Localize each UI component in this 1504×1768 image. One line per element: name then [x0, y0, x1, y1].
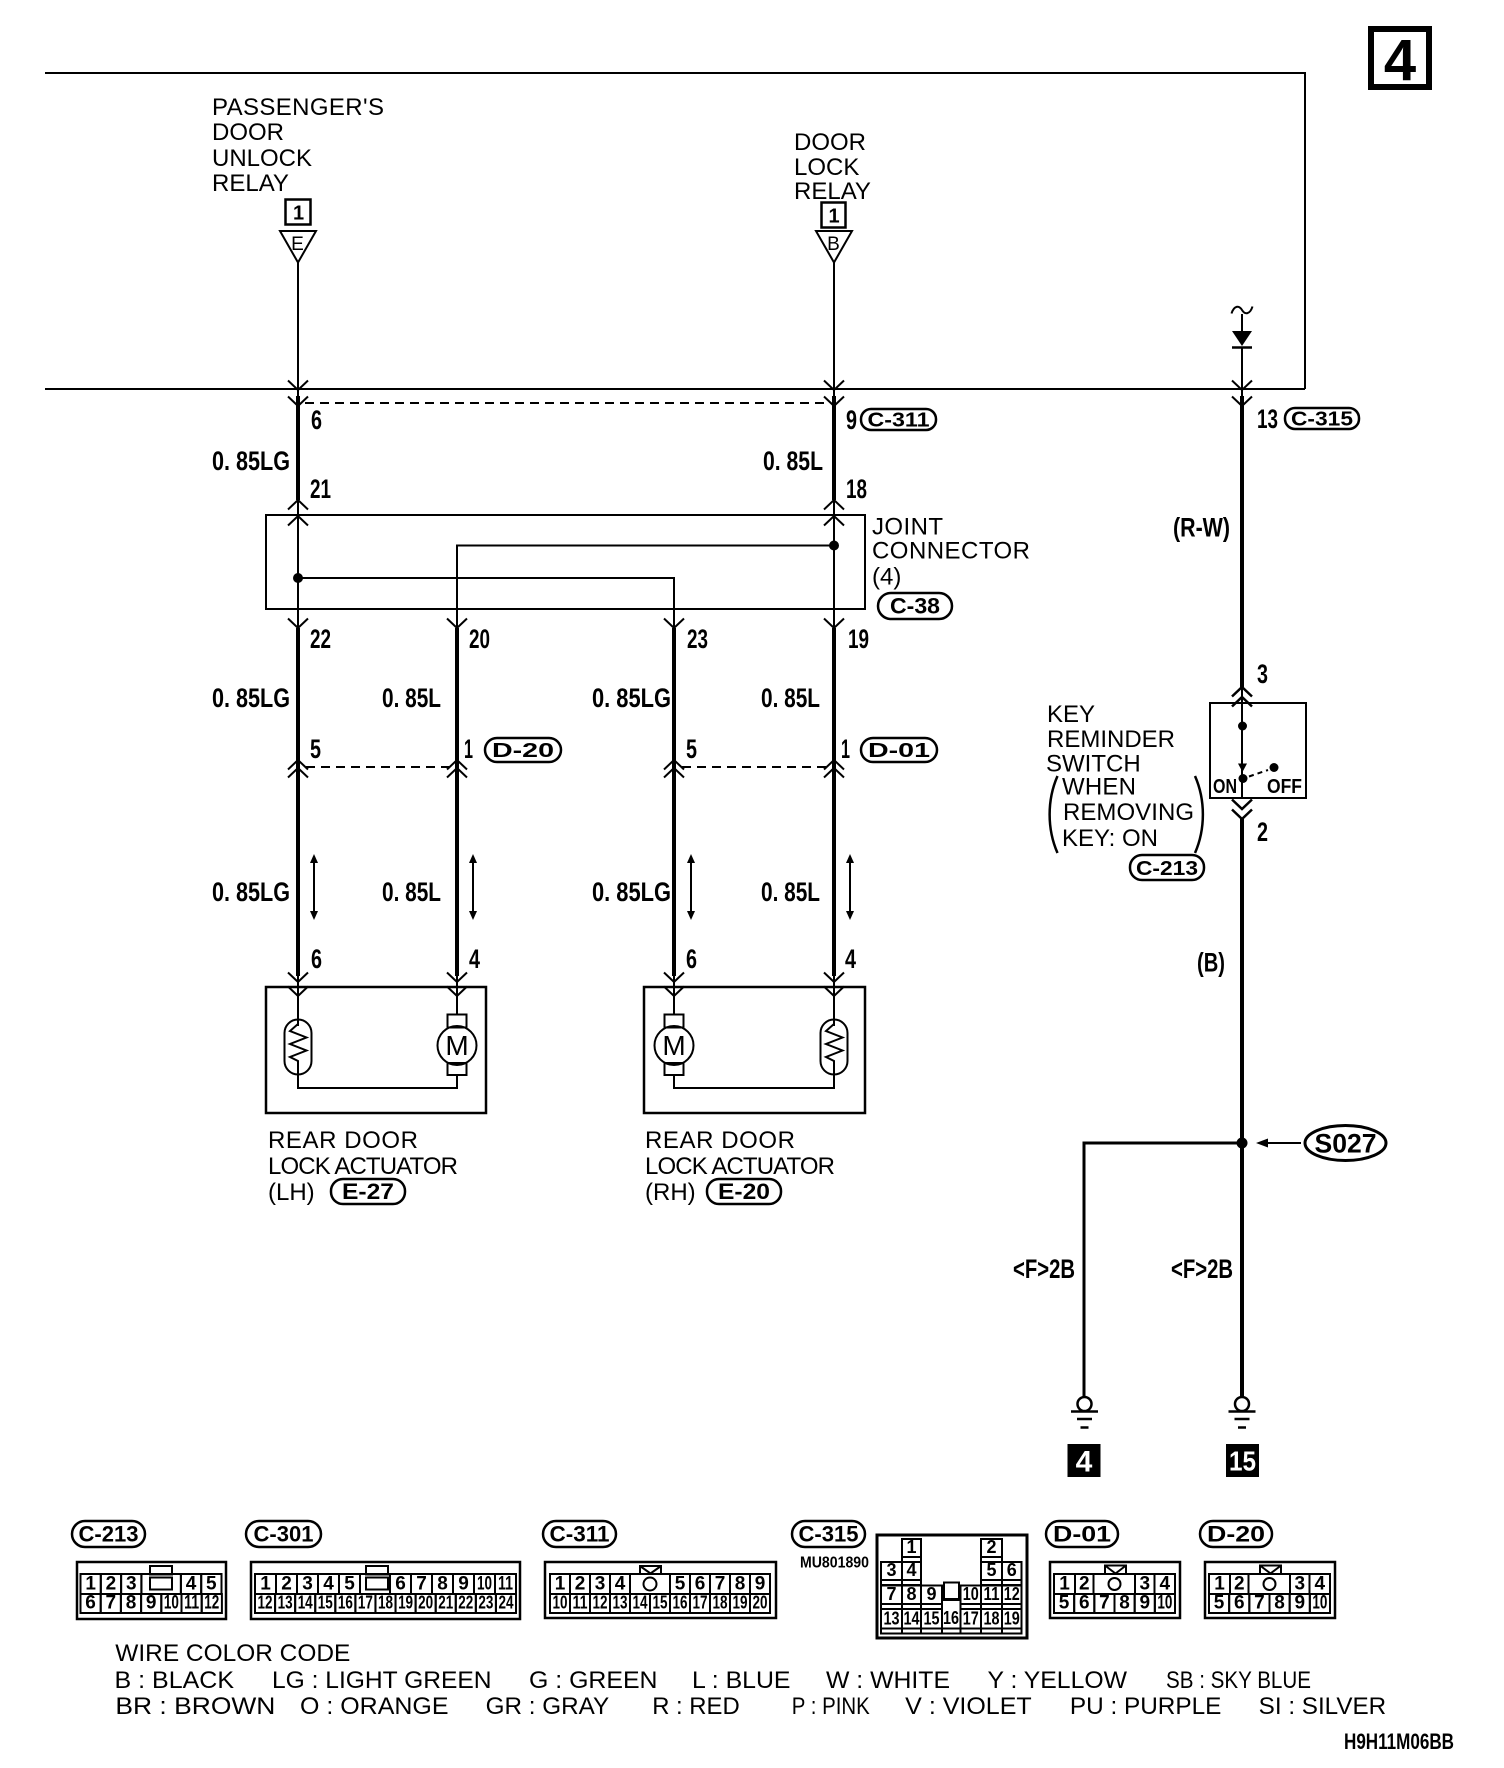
svg-text:0. 85LG: 0. 85LG: [592, 683, 671, 713]
chevrons into actuator RH pin 6: [664, 973, 684, 997]
svg-text:2: 2: [986, 1537, 996, 1557]
svg-text:19: 19: [1004, 1609, 1020, 1629]
junction node at pin 18 branch: [829, 541, 839, 551]
svg-text:C-311: C-311: [550, 1522, 610, 1547]
connector label E-20: [707, 1179, 781, 1204]
wire tilde to diode: [1241, 314, 1243, 331]
dashed pairing line 6-9: [305, 402, 826, 404]
svg-text:8: 8: [1119, 1593, 1130, 1614]
svg-text:4: 4: [615, 1574, 626, 1595]
svg-text:22: 22: [458, 1593, 473, 1613]
joint connector C-38 box: [266, 515, 865, 609]
wire (R-W) pin 13 down to key reminder switch: [1240, 396, 1244, 687]
svg-text:4: 4: [186, 1574, 197, 1595]
svg-text:24: 24: [498, 1593, 513, 1613]
svg-text:20: 20: [418, 1593, 433, 1613]
switch moving contact arrow: [1238, 764, 1247, 773]
svg-text:10: 10: [1157, 1593, 1172, 1614]
svg-text:18: 18: [846, 474, 867, 504]
switch OFF contact node: [1270, 763, 1279, 772]
svg-text:(R-W): (R-W): [1173, 513, 1230, 543]
svg-text:D-20: D-20: [492, 740, 554, 762]
svg-text:8: 8: [437, 1574, 448, 1595]
svg-text:KEY: ON: KEY: ON: [1062, 825, 1158, 852]
svg-text:REAR DOOR: REAR DOOR: [645, 1127, 795, 1154]
svg-text:1: 1: [828, 206, 839, 228]
rear door lock actuator RH box E-20: [644, 987, 865, 1113]
in-line connector chevrons column 4: [824, 760, 844, 778]
actuator RH name label: [645, 1127, 835, 1206]
svg-text:8: 8: [906, 1584, 916, 1604]
svg-text:H9H11M06BB: H9H11M06BB: [1344, 1729, 1454, 1754]
relay K1 PASSENGER'S DOOR UNLOCK RELAY label: [212, 94, 384, 197]
chevrons into actuator LH pin 6: [288, 973, 308, 997]
svg-text:7: 7: [106, 1593, 117, 1614]
svg-text:18: 18: [378, 1593, 393, 1613]
svg-text:7: 7: [1099, 1593, 1110, 1614]
junction chevrons at bus, pin 13: [1232, 381, 1252, 391]
svg-text:17: 17: [963, 1609, 979, 1629]
switch internal wire: [1241, 703, 1243, 798]
svg-text:KEY: KEY: [1047, 701, 1095, 728]
relay K2 terminal box 1: [822, 203, 846, 228]
svg-text:1: 1: [293, 203, 304, 225]
svg-text:7: 7: [886, 1584, 896, 1604]
svg-text:10: 10: [164, 1593, 179, 1614]
wire 0.85LG pin 6 to joint connector pin 21: [296, 396, 300, 500]
svg-text:16: 16: [338, 1593, 353, 1613]
svg-text:13: 13: [1257, 404, 1278, 434]
wire 0.85LG pin 23 down to actuator RH: [672, 628, 676, 976]
svg-text:9: 9: [1294, 1593, 1305, 1614]
svg-text:1: 1: [1214, 1574, 1225, 1595]
page number box 4: [1371, 28, 1429, 93]
svg-text:L : BLUE: L : BLUE: [692, 1667, 791, 1694]
dashed pairing line 5-1 left: [306, 766, 449, 768]
svg-text:0. 85L: 0. 85L: [382, 877, 441, 907]
svg-text:0. 85LG: 0. 85LG: [212, 877, 290, 907]
svg-text:6: 6: [85, 1593, 96, 1614]
actuator LH name label: [268, 1127, 458, 1206]
svg-text:7: 7: [416, 1574, 427, 1595]
svg-text:2: 2: [106, 1574, 117, 1595]
svg-text:19: 19: [848, 624, 869, 654]
svg-text:5: 5: [344, 1574, 355, 1595]
in-line connector chevrons column 2: [447, 760, 467, 778]
svg-text:6: 6: [1234, 1593, 1245, 1614]
svg-text:16: 16: [943, 1608, 959, 1628]
chevron out of joint connector pin 22: [288, 619, 308, 629]
rear door lock actuator LH box E-27: [266, 987, 486, 1113]
splice pointer arrow: [1256, 1139, 1301, 1148]
wire (B) pin 2 down to splice: [1240, 819, 1244, 1143]
connector label E-27: [331, 1179, 405, 1204]
svg-text:8: 8: [126, 1593, 137, 1614]
svg-text:6: 6: [395, 1574, 406, 1595]
svg-text:0. 85LG: 0. 85LG: [212, 446, 290, 476]
svg-text:WHEN: WHEN: [1062, 774, 1136, 801]
svg-text:10: 10: [1312, 1593, 1327, 1614]
svg-text:C-213: C-213: [1136, 858, 1198, 880]
connector pinout C-315: [792, 1521, 1027, 1638]
svg-text:MU801890: MU801890: [800, 1555, 869, 1572]
chevrons into joint connector pin 21: [288, 500, 308, 526]
svg-text:5: 5: [1214, 1593, 1225, 1614]
svg-text:5: 5: [986, 1560, 996, 1580]
svg-text:17: 17: [693, 1593, 708, 1613]
svg-text:6: 6: [1079, 1593, 1090, 1614]
chevron out of joint connector pin 20: [447, 619, 467, 629]
svg-text:O : ORANGE: O : ORANGE: [300, 1693, 449, 1720]
svg-text:E: E: [291, 234, 304, 255]
svg-text:2: 2: [1257, 817, 1268, 847]
svg-text:3: 3: [886, 1560, 896, 1580]
svg-text:Y : YELLOW: Y : YELLOW: [988, 1667, 1128, 1694]
wire inside joint connector pin 21-22: [297, 500, 299, 628]
splice label S027 ellipse: [1305, 1126, 1386, 1161]
wire diode to bus: [1241, 348, 1243, 396]
svg-text:3: 3: [1139, 1574, 1150, 1595]
diode D1: [1232, 331, 1252, 348]
internal bus wire to pin 20: [457, 546, 834, 629]
svg-text:13: 13: [278, 1593, 293, 1613]
connector label C-213 switch: [1130, 855, 1204, 880]
svg-text:2: 2: [1079, 1574, 1090, 1595]
svg-text:4: 4: [906, 1560, 916, 1580]
connector pinout C-311: [543, 1521, 776, 1618]
connector pinout D-01: [1046, 1521, 1180, 1618]
chevrons into key reminder switch pin 3: [1232, 687, 1252, 707]
svg-text:5: 5: [675, 1574, 686, 1595]
svg-text:GR : GRAY: GR : GRAY: [486, 1693, 610, 1720]
motor RH: [655, 1015, 694, 1076]
coil (solenoid) RH: [821, 1020, 848, 1075]
svg-text:3: 3: [126, 1574, 137, 1595]
svg-text:V : VIOLET: V : VIOLET: [905, 1693, 1032, 1720]
in-line connector chevrons column 1: [288, 760, 308, 778]
svg-text:10: 10: [963, 1584, 979, 1604]
svg-text:LG : LIGHT GREEN: LG : LIGHT GREEN: [272, 1667, 492, 1694]
chevrons out of key reminder switch pin 2: [1232, 800, 1252, 820]
connector label D-20: [485, 738, 561, 762]
svg-text:6: 6: [311, 405, 322, 435]
wire coil RH to motor RH: [674, 1074, 834, 1088]
splice branch wire to left ground: [1084, 1143, 1242, 1397]
svg-text:4: 4: [845, 944, 856, 974]
svg-text:14: 14: [904, 1609, 920, 1629]
svg-text:3: 3: [595, 1574, 606, 1595]
big right parenthesis: [1195, 776, 1203, 853]
svg-text:(RH): (RH): [645, 1179, 696, 1206]
svg-text:15: 15: [1229, 1446, 1256, 1477]
svg-text:(4): (4): [872, 564, 901, 591]
svg-text:10: 10: [553, 1593, 568, 1613]
wire 0.85LG pin 22 down to actuator LH: [296, 628, 300, 976]
ground reference tag 4: [1068, 1444, 1101, 1479]
svg-text:9: 9: [926, 1584, 936, 1604]
switch ON contact node: [1239, 774, 1248, 783]
relay K1 terminal box 1: [286, 200, 311, 225]
svg-text:1: 1: [260, 1574, 271, 1595]
svg-text:13: 13: [884, 1609, 900, 1629]
svg-text:LOCK ACTUATOR: LOCK ACTUATOR: [268, 1153, 458, 1180]
svg-text:11: 11: [498, 1574, 513, 1595]
motor LH: [438, 1015, 477, 1076]
svg-text:1: 1: [464, 734, 473, 764]
svg-text:SI : SILVER: SI : SILVER: [1259, 1693, 1387, 1720]
two-way arrow column 4: [846, 854, 854, 920]
svg-text:12: 12: [204, 1593, 219, 1614]
svg-text:REMINDER: REMINDER: [1047, 726, 1175, 753]
wire: lower bus line: [45, 388, 1305, 390]
svg-text:1: 1: [841, 734, 850, 764]
svg-text:C-38: C-38: [890, 594, 940, 619]
wire pin 6 to coil LH: [297, 976, 299, 1026]
connector pinout D-20: [1200, 1521, 1335, 1618]
svg-text:13: 13: [613, 1593, 628, 1613]
svg-text:PU : PURPLE: PU : PURPLE: [1070, 1693, 1222, 1720]
svg-text:1: 1: [555, 1574, 566, 1595]
svg-text:23: 23: [687, 624, 708, 654]
two-way arrow column 3: [687, 854, 695, 920]
svg-text:D-20: D-20: [1207, 1522, 1265, 1547]
connector pinout C-213: [72, 1521, 226, 1619]
svg-text:8: 8: [735, 1574, 746, 1595]
svg-text:9: 9: [146, 1593, 157, 1614]
svg-text:0. 85LG: 0. 85LG: [212, 683, 290, 713]
svg-text:LOCK ACTUATOR: LOCK ACTUATOR: [645, 1153, 835, 1180]
wire: right border of relay section: [1304, 72, 1306, 389]
chevron out of joint connector pin 23: [664, 619, 684, 629]
chevrons into joint connector pin 18: [824, 500, 844, 526]
wire chevrons to switch box: [1241, 687, 1243, 703]
svg-text:0. 85LG: 0. 85LG: [592, 877, 671, 907]
svg-text:WIRE COLOR CODE: WIRE COLOR CODE: [115, 1640, 350, 1667]
wire 0.85L pin 9 to joint connector pin 18: [832, 396, 836, 500]
svg-text:19: 19: [398, 1593, 413, 1613]
svg-text:15: 15: [924, 1609, 940, 1629]
svg-text:4: 4: [323, 1574, 334, 1595]
key reminder switch box C-213: [1210, 703, 1306, 798]
joint connector name label: [872, 514, 1030, 591]
ground symbol right: [1229, 1397, 1256, 1428]
svg-text:B : BLACK: B : BLACK: [115, 1667, 235, 1694]
svg-text:1: 1: [906, 1537, 916, 1557]
svg-text:P : PINK: P : PINK: [792, 1693, 870, 1720]
svg-text:C-213: C-213: [79, 1522, 139, 1547]
svg-text:20: 20: [469, 624, 490, 654]
svg-text:7: 7: [1254, 1593, 1265, 1614]
svg-text:2: 2: [281, 1574, 292, 1595]
svg-text:21: 21: [438, 1593, 453, 1613]
svg-text:ON: ON: [1213, 776, 1237, 798]
coil (solenoid) LH: [285, 1020, 312, 1075]
svg-text:RELAY: RELAY: [794, 178, 871, 205]
svg-text:W : WHITE: W : WHITE: [826, 1667, 950, 1694]
svg-text:REAR DOOR: REAR DOOR: [268, 1127, 418, 1154]
svg-text:15: 15: [318, 1593, 333, 1613]
switch throw dashed link: [1249, 770, 1268, 777]
svg-text:11: 11: [573, 1593, 588, 1613]
connector label D-01: [861, 738, 937, 762]
in-line connector chevrons column 3: [664, 760, 684, 778]
svg-text:18: 18: [984, 1609, 1000, 1629]
svg-text:1: 1: [1059, 1574, 1070, 1595]
two-way arrow column 1: [310, 854, 318, 920]
connector pinout C-301: [246, 1521, 520, 1619]
svg-text:6: 6: [311, 944, 322, 974]
svg-text:D-01: D-01: [868, 740, 930, 762]
wire color code legend: [115, 1640, 1387, 1720]
junction chevrons at bus, pin 6: [288, 381, 308, 391]
svg-text:6: 6: [695, 1574, 706, 1595]
connector label C-38: [878, 593, 952, 619]
wire from relay K2 to bus: [833, 262, 835, 396]
big left parenthesis: [1050, 776, 1058, 853]
splice node S027: [1237, 1138, 1248, 1149]
svg-text:5: 5: [686, 734, 697, 764]
svg-text:4: 4: [1076, 1446, 1093, 1479]
internal bus wire to pin 23: [298, 578, 674, 628]
svg-text:OFF: OFF: [1267, 776, 1302, 798]
ground symbol left: [1071, 1397, 1098, 1428]
svg-text:9: 9: [458, 1574, 469, 1595]
svg-text:CONNECTOR: CONNECTOR: [872, 538, 1030, 565]
chevron out of joint connector pin 19: [824, 619, 844, 629]
svg-text:PASSENGER'S: PASSENGER'S: [212, 94, 384, 121]
svg-text:2: 2: [575, 1574, 586, 1595]
wire coil LH to motor LH: [298, 1074, 457, 1088]
svg-text:LOCK: LOCK: [794, 154, 859, 181]
svg-text:G : GREEN: G : GREEN: [529, 1667, 658, 1694]
wire from relay K1 to bus: [297, 262, 299, 396]
svg-text:<F>2B: <F>2B: [1171, 1254, 1233, 1284]
wire pin 6 to motor RH: [673, 976, 675, 1015]
junction node at pin 21 branch: [293, 573, 303, 583]
junction chevrons at bus, pin 9: [824, 381, 844, 391]
svg-text:BR : BROWN: BR : BROWN: [115, 1693, 275, 1720]
svg-text:0. 85L: 0. 85L: [382, 683, 441, 713]
svg-text:19: 19: [733, 1593, 748, 1613]
svg-text:DOOR: DOOR: [212, 119, 284, 146]
svg-text:6: 6: [1007, 1560, 1017, 1580]
svg-text:DOOR: DOOR: [794, 129, 866, 156]
svg-text:4: 4: [1314, 1574, 1325, 1595]
relay K2 DOOR LOCK RELAY label: [794, 129, 871, 205]
svg-text:4: 4: [1159, 1574, 1170, 1595]
wire inside joint connector pin 18-19: [833, 500, 835, 628]
svg-text:1: 1: [85, 1574, 96, 1595]
svg-text:15: 15: [653, 1593, 668, 1613]
svg-text:11: 11: [984, 1584, 1000, 1604]
svg-text:11: 11: [184, 1593, 199, 1614]
svg-text:M: M: [445, 1030, 468, 1061]
svg-text:(B): (B): [1197, 948, 1225, 978]
svg-text:0. 85L: 0. 85L: [761, 877, 820, 907]
svg-text:10: 10: [477, 1574, 492, 1595]
svg-text:5: 5: [206, 1574, 217, 1595]
wire pin 4 to coil RH: [833, 976, 835, 1026]
wire pin 4 to motor LH: [456, 976, 458, 1015]
wire 0.85L pin 20 down to actuator LH: [455, 628, 459, 976]
svg-text:12: 12: [1004, 1584, 1020, 1604]
svg-text:C-315: C-315: [799, 1522, 859, 1547]
svg-text:12: 12: [258, 1593, 273, 1613]
svg-text:M: M: [662, 1030, 685, 1061]
svg-text:3: 3: [1257, 659, 1268, 689]
connector label C-315: [1285, 408, 1359, 431]
svg-text:5: 5: [310, 734, 321, 764]
svg-text:3: 3: [302, 1574, 313, 1595]
svg-text:C-301: C-301: [254, 1522, 314, 1547]
svg-text:C-311: C-311: [868, 410, 930, 432]
key reminder switch name label: [1046, 701, 1194, 852]
svg-text:B: B: [827, 234, 840, 255]
svg-text:14: 14: [298, 1593, 313, 1613]
wire 0.85L pin 19 down to actuator RH: [832, 628, 836, 976]
svg-text:REMOVING: REMOVING: [1063, 799, 1194, 826]
two-way arrow column 2: [469, 854, 477, 920]
AC source tilde above diode: [1232, 307, 1253, 314]
dashed pairing line 5-1 right: [682, 766, 826, 768]
svg-text:UNLOCK: UNLOCK: [212, 145, 312, 172]
svg-text:D-01: D-01: [1053, 1522, 1111, 1547]
relay K2 connector triangle B: [816, 231, 852, 263]
svg-text:4: 4: [469, 944, 480, 974]
svg-text:16: 16: [673, 1593, 688, 1613]
svg-text:14: 14: [633, 1593, 648, 1613]
chevrons into actuator LH pin 4: [447, 973, 467, 997]
svg-text:9: 9: [755, 1574, 766, 1595]
svg-text:23: 23: [478, 1593, 493, 1613]
svg-text:7: 7: [715, 1574, 726, 1595]
connector label C-311: [861, 409, 936, 432]
svg-text:4: 4: [1384, 28, 1416, 93]
switch fixed contact node: [1238, 722, 1247, 731]
svg-text:8: 8: [1274, 1593, 1285, 1614]
svg-text:9: 9: [1139, 1593, 1150, 1614]
svg-text:0. 85L: 0. 85L: [763, 446, 823, 476]
svg-text:22: 22: [310, 624, 331, 654]
svg-text:5: 5: [1059, 1593, 1070, 1614]
svg-text:21: 21: [310, 474, 331, 504]
svg-text:C-315: C-315: [1291, 409, 1353, 431]
svg-text:E-27: E-27: [342, 1179, 394, 1204]
chevrons into actuator RH pin 4: [824, 973, 844, 997]
wire splice to right ground: [1240, 1143, 1244, 1397]
svg-text:9: 9: [846, 405, 857, 435]
relay K1 connector triangle E: [280, 231, 316, 263]
svg-text:E-20: E-20: [718, 1179, 770, 1204]
svg-text:0. 85L: 0. 85L: [761, 683, 820, 713]
svg-text:2: 2: [1234, 1574, 1245, 1595]
svg-text:(LH): (LH): [268, 1179, 315, 1206]
svg-text:12: 12: [593, 1593, 608, 1613]
svg-text:SB : SKY BLUE: SB : SKY BLUE: [1166, 1667, 1311, 1694]
svg-text:S027: S027: [1315, 1129, 1377, 1159]
svg-text:JOINT: JOINT: [872, 514, 943, 541]
svg-text:17: 17: [358, 1593, 373, 1613]
svg-text:R : RED: R : RED: [652, 1693, 740, 1720]
svg-text:20: 20: [753, 1593, 768, 1613]
ground reference tag 15: [1226, 1444, 1259, 1477]
wire: top bus line: [45, 72, 1305, 74]
svg-text:<F>2B: <F>2B: [1013, 1254, 1075, 1284]
svg-text:6: 6: [686, 944, 697, 974]
svg-text:RELAY: RELAY: [212, 170, 289, 197]
svg-text:18: 18: [713, 1593, 728, 1613]
svg-text:3: 3: [1294, 1574, 1305, 1595]
